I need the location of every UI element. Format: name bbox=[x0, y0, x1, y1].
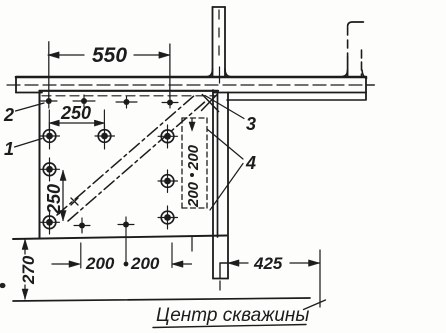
svg-text:3: 3 bbox=[246, 114, 256, 134]
svg-text:550: 550 bbox=[92, 44, 127, 67]
svg-text:425: 425 bbox=[253, 254, 283, 273]
svg-text:2: 2 bbox=[3, 105, 14, 125]
svg-text:250: 250 bbox=[60, 103, 91, 123]
svg-text:200: 200 bbox=[85, 254, 115, 273]
svg-text:4: 4 bbox=[245, 153, 256, 173]
svg-text:270: 270 bbox=[19, 255, 38, 285]
svg-text:250: 250 bbox=[44, 184, 64, 215]
svg-text:200: 200 bbox=[130, 254, 160, 273]
svg-text:1: 1 bbox=[4, 139, 14, 159]
svg-text:200: 200 bbox=[185, 144, 202, 171]
svg-text:Центр скважины: Центр скважины bbox=[156, 305, 309, 326]
svg-text:200: 200 bbox=[185, 181, 202, 208]
